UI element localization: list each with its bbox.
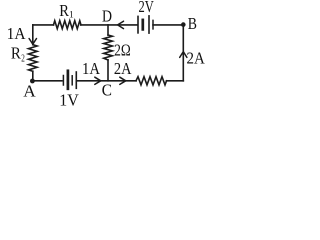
node A (30, 79, 35, 84)
resistor R1 (54, 21, 82, 29)
wire top middle (R1 to battery 2V) (81, 24, 137, 26)
arrow right 2A (bottom wire after C) (120, 77, 126, 84)
svg-text:C: C (102, 80, 112, 99)
arrow left (top wire toward D) (118, 21, 124, 28)
wire top-right (battery to B) (153, 24, 183, 26)
svg-text:D: D (102, 7, 112, 26)
arrow down 1A (left wire) (29, 39, 36, 45)
wire left lower (R2 to A) (32, 71, 34, 81)
svg-text:2A: 2A (114, 59, 132, 78)
svg-text:2: 2 (21, 53, 25, 64)
wire top-left segment (corner to R1) (33, 24, 54, 26)
wire middle branch upper (D to 2ohm) (107, 25, 109, 35)
resistor (bottom right, unlabeled) (136, 77, 167, 85)
svg-text:1: 1 (69, 11, 74, 21)
svg-text:1V: 1V (59, 91, 79, 108)
arrow right 1A (bottom wire) (95, 77, 101, 84)
svg-text:2Ω: 2Ω (114, 40, 131, 59)
svg-text:2A: 2A (187, 49, 206, 68)
wire right side (B to bottom corner) (182, 25, 184, 81)
battery 1V plates (63, 71, 76, 89)
battery 2V plates (138, 16, 153, 33)
wire bottom middle (battery to C to resistor) (77, 80, 136, 82)
svg-text:2V: 2V (139, 0, 155, 16)
svg-text:R: R (59, 1, 69, 20)
wire left side (32, 25, 34, 45)
svg-text:B: B (188, 14, 197, 33)
wire bottom-right corner (167, 80, 184, 82)
svg-text:R: R (11, 44, 22, 63)
resistor 2 ohm (104, 35, 113, 60)
wire bottom-left (A to battery 1V) (33, 80, 62, 82)
node B (181, 22, 186, 27)
svg-text:1A: 1A (82, 59, 101, 78)
arrow up 2A (right wire) (180, 52, 187, 58)
svg-text:A: A (23, 82, 36, 101)
resistor R2 (29, 45, 38, 72)
svg-text:1A: 1A (7, 24, 27, 43)
wire middle branch lower (2ohm to C) (107, 60, 109, 81)
